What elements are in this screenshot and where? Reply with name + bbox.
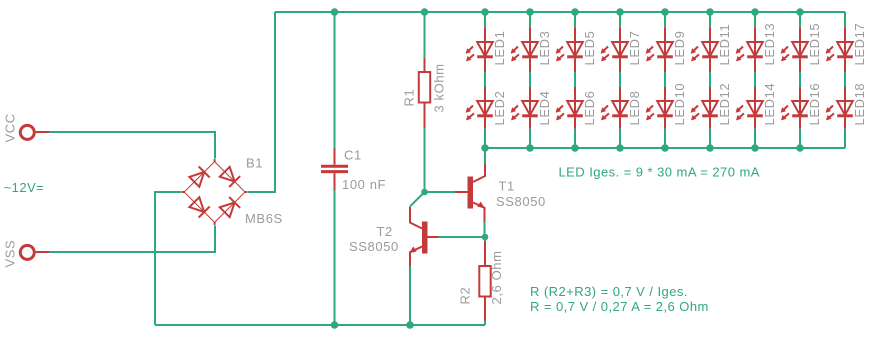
wire LED column 2 top: [529, 12, 531, 29]
wire top bus: [275, 11, 845, 13]
wire LED column 3 bottom: [574, 129, 576, 149]
bridge pin stubs: [182, 159, 248, 225]
wire LED column 1 bottom: [484, 129, 486, 149]
junction dots LED bus: [481, 144, 489, 152]
svg-text:LED14: LED14: [762, 83, 777, 126]
wire LED bottom bus: [485, 147, 845, 149]
LED LED9: [646, 28, 673, 72]
LED LED4: [511, 87, 538, 131]
wire R1 to node: [424, 128, 426, 193]
wire T2 emitter down: [409, 266, 411, 325]
svg-text:LED10: LED10: [672, 83, 687, 126]
LED LED13: [736, 28, 763, 72]
wire LED column 9 middle: [844, 72, 846, 87]
svg-text:100 nF: 100 nF: [342, 177, 386, 192]
svg-text:VSS: VSS: [3, 240, 18, 268]
LED LED3: [511, 28, 538, 72]
svg-text:LED13: LED13: [762, 23, 777, 66]
LED LED11: [691, 28, 718, 72]
svg-text:LED18: LED18: [852, 83, 867, 126]
svg-text:T1: T1: [499, 179, 515, 194]
svg-text:SS8050: SS8050: [496, 194, 546, 209]
svg-text:VCC: VCC: [3, 113, 18, 142]
bridge diode D2 (anode top, cathode right): [220, 167, 235, 182]
wire VCC to bridge top: [49, 132, 215, 159]
svg-text:R = 0,7 V / 0,27 A = 2,6 Ohm: R = 0,7 V / 0,27 A = 2,6 Ohm: [530, 299, 709, 314]
resistor R1 3 kOhm: [402, 59, 447, 128]
wire node diagonal to T2 collector: [410, 192, 425, 207]
svg-text:C1: C1: [344, 148, 362, 163]
bridge diode D1 (anode left, cathode top): [189, 172, 204, 187]
svg-text:R (R2+R3) = 0,7 V / Iges.: R (R2+R3) = 0,7 V / Iges.: [530, 284, 688, 299]
wire LED column 5 middle: [664, 72, 666, 87]
svg-text:R1: R1: [402, 89, 417, 107]
svg-text:LED9: LED9: [672, 31, 687, 66]
resistor R2 2,6 Ohm: [458, 237, 505, 325]
bridge rectifier B1 MB6S: [182, 156, 283, 227]
wire node to T1 base: [425, 191, 456, 193]
svg-text:LED11: LED11: [717, 24, 732, 66]
wire LED column 8 top: [799, 12, 801, 29]
LED LED1: [466, 28, 493, 72]
capacitor C1 100 nF: [321, 148, 386, 193]
wire T1 collector to LED bus: [484, 148, 486, 164]
svg-text:LED6: LED6: [582, 91, 597, 126]
wire LED column 4 top: [619, 12, 621, 29]
svg-text:LED5: LED5: [582, 31, 597, 66]
wire C1 column top: [334, 12, 336, 149]
LED LED8: [601, 87, 628, 131]
wire C1 column bottom: [334, 190, 336, 325]
wire LED column 9 top: [844, 12, 846, 29]
wire LED column 9 bottom: [844, 129, 846, 149]
terminal VSS: [3, 240, 50, 268]
wire LED column 2 middle: [529, 72, 531, 87]
wire LED column 3 middle: [574, 72, 576, 87]
svg-text:T2: T2: [377, 224, 393, 239]
svg-text:LED3: LED3: [537, 31, 552, 66]
svg-text:LED1: LED1: [492, 31, 507, 66]
wire LED column 3 top: [574, 12, 576, 29]
wire LED column 5 bottom: [664, 129, 666, 149]
svg-text:MB6S: MB6S: [245, 211, 283, 226]
svg-text:3 kOhm: 3 kOhm: [432, 63, 447, 112]
wire LED column 1 top: [484, 12, 486, 29]
svg-text:LED15: LED15: [807, 23, 822, 66]
LED LED2: [466, 87, 493, 131]
bridge diode D4 (anode bottom, cathode right): [220, 202, 235, 217]
svg-text:LED8: LED8: [627, 91, 642, 126]
wire VSS to bridge bottom: [49, 225, 215, 252]
wire LED column 4 middle: [619, 72, 621, 87]
wire LED column 4 bottom: [619, 129, 621, 149]
wire R1 column top: [424, 12, 426, 59]
svg-text:SS8050: SS8050: [349, 239, 399, 254]
wire LED column 7 bottom: [754, 129, 756, 149]
wire bottom bus: [155, 324, 485, 326]
LED LED15: [781, 28, 808, 72]
svg-text:LED16: LED16: [807, 83, 822, 126]
node R2 junction: [482, 234, 489, 241]
LED LED12: [691, 87, 718, 131]
wire LED column 8 middle: [799, 72, 801, 87]
wire T2 base to node: [439, 236, 486, 238]
svg-text:B1: B1: [246, 156, 263, 171]
svg-text:LED17: LED17: [852, 23, 867, 66]
transistor T1 SS8050: [455, 164, 546, 223]
bridge frame: [184, 162, 245, 223]
svg-text:LED12: LED12: [717, 83, 732, 126]
wire bridge left to bottom bus: [155, 192, 181, 325]
svg-text:LED7: LED7: [627, 31, 642, 66]
LED LED14: [736, 87, 763, 131]
wire bridge right to top bus: [248, 12, 275, 192]
LED LED5: [556, 28, 583, 72]
svg-text:R2: R2: [458, 287, 473, 305]
terminal VCC: [3, 113, 50, 142]
transistor T2 SS8050 (mirrored): [349, 207, 439, 266]
wire LED column 6 top: [709, 12, 711, 29]
LED LED6: [556, 87, 583, 131]
wire LED column 7 middle: [754, 72, 756, 87]
wire LED column 8 bottom: [799, 129, 801, 149]
svg-text:~12V=: ~12V=: [4, 180, 45, 195]
node T1 base junction: [421, 189, 428, 196]
bridge diode D3 (anode left, cathode bottom): [189, 197, 204, 212]
LED LED17: [826, 28, 853, 72]
svg-text:2,6 Ohm: 2,6 Ohm: [489, 250, 504, 304]
wire LED column 5 top: [664, 12, 666, 29]
svg-text:LED Iges. = 9 * 30 mA = 270 mA: LED Iges. = 9 * 30 mA = 270 mA: [559, 165, 760, 180]
wire LED column 7 top: [754, 12, 756, 29]
LED LED10: [646, 87, 673, 131]
svg-text:LED2: LED2: [492, 91, 507, 126]
wire T1 emitter down: [484, 222, 486, 237]
wire LED column 2 bottom: [529, 129, 531, 149]
wire LED column 1 middle: [484, 72, 486, 87]
LED LED16: [781, 87, 808, 131]
LED LED18: [826, 87, 853, 131]
svg-text:LED4: LED4: [537, 91, 552, 126]
junction dots bottom bus: [331, 321, 339, 329]
wire LED column 6 middle: [709, 72, 711, 87]
wire LED column 6 bottom: [709, 129, 711, 149]
junction dots top bus: [331, 8, 339, 16]
LED LED7: [601, 28, 628, 72]
